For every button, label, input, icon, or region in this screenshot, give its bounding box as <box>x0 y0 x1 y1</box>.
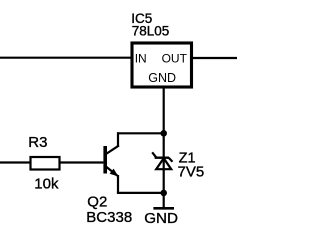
transistor Q2 emitter diagonal with arrow <box>107 167 119 177</box>
ground symbol bar <box>153 207 174 210</box>
svg-text:Q2: Q2 <box>87 193 107 210</box>
svg-text:BC338: BC338 <box>86 209 132 226</box>
wire collector vertical stub <box>117 132 119 146</box>
svg-text:IN: IN <box>135 51 147 65</box>
wire node B down to ground <box>163 193 165 208</box>
diode Z1 zener triangle <box>156 158 171 169</box>
wire left edge to resistor <box>0 161 30 163</box>
wire OUT pin to right edge <box>192 57 238 59</box>
wire through zener Z1 vertical <box>163 133 165 193</box>
node B junction dot <box>160 190 167 197</box>
svg-text:R3: R3 <box>28 134 47 151</box>
svg-text:78L05: 78L05 <box>132 23 170 38</box>
wire emitter horizontal to node B <box>117 192 164 194</box>
wire input rail to IN pin <box>0 57 132 59</box>
op-amp U1 regulator IC5 78L05 box <box>132 43 192 87</box>
wire emitter vertical <box>117 175 119 193</box>
node A junction dot <box>160 130 167 137</box>
wire base from resistor to Q2 <box>60 161 103 163</box>
diode Z1 zener cathode bar <box>152 152 172 161</box>
svg-text:GND: GND <box>148 71 176 85</box>
wire IC GND pin down to node A <box>163 87 165 133</box>
transistor Q2 collector diagonal <box>106 145 119 154</box>
wire collector horizontal to node A <box>117 132 164 134</box>
svg-text:7V5: 7V5 <box>178 164 205 181</box>
svg-text:10k: 10k <box>34 175 59 192</box>
svg-text:GND: GND <box>144 210 178 227</box>
svg-text:OUT: OUT <box>162 51 188 65</box>
resistor R3 body <box>31 157 60 170</box>
transistor Q2 base bar <box>103 146 107 174</box>
